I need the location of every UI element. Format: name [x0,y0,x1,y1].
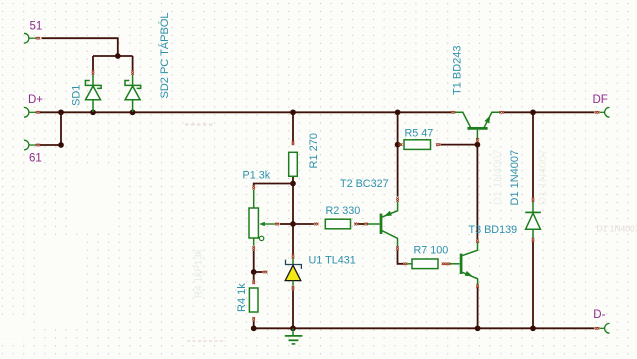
pin connection marks U1 ref [263,271,267,274]
potentiometer P1 3k [243,170,275,246]
node R1 top [290,109,296,115]
wire U1 cathode net [292,226,294,254]
wire T2 emitter column [397,114,399,143]
wire SD2 cathode drop [132,56,134,70]
wire R1 bottom to P1 node [292,176,294,224]
node T3 emitter bottom [475,325,481,331]
node P1/R4/U1-ref junction [251,269,257,275]
pin connection marks D1 cathode [532,198,535,202]
pin connection marks T1 collector side [451,111,455,114]
svg-text:T1 BD243: T1 BD243 [452,45,464,95]
transistor T1 BD243 [452,45,500,138]
svg-text:61: 61 [29,153,42,165]
wire U1 anode net [292,290,294,328]
terminal D+ [24,94,43,117]
faint artifact dashes [185,123,215,125]
faint artifact dashes bottom [187,340,226,342]
wire P1 bottom net [253,251,255,272]
terminal DF [593,94,610,117]
resistor R5 47 [404,128,433,150]
wire R7 left pin [407,263,412,265]
node wiper junction [290,221,296,227]
diode SD2 PC TAPBOL [125,13,171,113]
svg-text:U1 TL431: U1 TL431 [309,255,356,267]
pin connection marks R4 top [252,280,255,284]
svg-text:SD2 PC TÁPBÓL: SD2 PC TÁPBÓL [158,13,171,99]
svg-text:T3 BD139: T3 BD139 [469,224,518,236]
pin connection marks R5 left [398,143,402,146]
svg-text:D-: D- [593,309,605,321]
wire 61 horizontal [40,144,61,146]
svg-text:R4 1k: R4 1k [236,283,248,312]
svg-text:D1 1N4007: D1 1N4007 [509,150,521,206]
wire SD1 cathode drop [92,56,94,70]
svg-text:SD1: SD1 [71,85,83,106]
wire R2 left net [293,223,314,225]
pin connection marks T1 emitter side [500,111,504,114]
pin connection marks T1 base [476,138,479,142]
pin connection marks T3 collector [476,239,479,243]
wire R4 bottom net [253,321,255,328]
resistor R2 330 [325,205,360,229]
pin connection marks R4 bottom [252,317,255,321]
faint ghost text 1N4007 [597,224,637,234]
pin connection marks D1 anode [532,238,535,242]
wire R5 right net [441,144,478,146]
transistor T2 BC327 [340,178,399,250]
pin connection marks R7 right [442,263,446,266]
svg-text:DF: DF [593,94,608,106]
svg-text:D+: D+ [28,94,43,106]
node ground junction [290,325,296,331]
svg-text:R7 100: R7 100 [414,245,449,257]
pin connection marks T3 base [446,263,450,266]
pin connection marks P1 wiper [275,223,279,226]
wire D1 cathode drop [532,114,534,198]
wire T1 emitter to DF [504,111,595,113]
svg-text:51: 51 [30,21,43,33]
pin connection marks R7 pin [403,263,407,266]
wire net 51 to diode tops [42,38,118,56]
pin connection marks T3 emitter [476,284,479,288]
shunt regulator U1 TL431 [285,255,356,286]
resistor R7 100 [412,245,448,269]
faint ghost marks near D1 [492,149,549,205]
transistor T3 BD139 [450,224,517,284]
svg-text:D1 1N4007: D1 1N4007 [537,149,549,205]
node DF / D1 junction [530,109,536,115]
wire P1 top [254,184,293,186]
wire diode top link [93,55,133,57]
pin connection marks T2 emitter [396,198,399,202]
pin connection marks R2 right [354,223,358,226]
node R5 left / T2 emitter [395,142,401,148]
faint ghost column bottom-left [194,248,205,298]
wire R2 right net [359,223,365,225]
terminal 51 [24,21,42,44]
pin connection marks P1 bottom [252,246,255,250]
svg-text:D1 1N4007: D1 1N4007 [597,224,637,234]
svg-text:D1 1N4007: D1 1N4007 [492,149,504,205]
node D+/61 tie [58,109,64,115]
diode D1 1N4007 [509,150,541,238]
node 61 corner [58,142,64,148]
node diode-top junction [115,53,121,59]
pin connection marks R1 top [292,141,295,145]
wire wiper net [280,223,293,225]
resistor R1 270 [289,133,320,176]
node D1 anode bottom [530,325,536,331]
svg-text:P1 3k: P1 3k [243,170,271,182]
pin connection marks U1 cathode [292,254,295,258]
wire T2 emitter drop [397,147,399,197]
dotless background patches [0,167,117,338]
ground [285,328,303,344]
node SD2 anode [130,109,136,115]
pin connection marks P1 top [252,185,255,189]
resistor R4 1k [236,283,258,312]
pin connection marks T2 base [364,223,368,226]
node R4 bottom [251,325,257,331]
node R1 bottom / P1 top [290,181,296,187]
wire R1 top lead [292,114,294,141]
wire U1 ref net [254,271,263,273]
wire D+ bus [40,111,451,113]
wire T3 collector net [476,145,478,239]
wire R4 top net [253,272,255,280]
pin connection marks SD2 cathode [131,70,134,74]
terminal 61 [24,140,42,164]
node SD1 anode [90,109,96,115]
diode SD1 [71,75,102,113]
pin connection marks SD1 cathode [92,70,95,74]
svg-text:R1 270: R1 270 [308,133,320,168]
wire bottom bus D- [254,327,595,329]
node T2 emitter column top [395,109,401,115]
wire T1 base net [476,141,478,144]
wire T2 collector to R7 [398,250,404,263]
wire D1 anode drop [532,242,534,327]
svg-text:R5 47: R5 47 [405,128,434,140]
svg-text:R2 330: R2 330 [326,205,361,217]
wire 61 riser [60,112,62,145]
svg-text:R4 1kP13k: R4 1kP13k [194,248,205,298]
pin connection marks R2 left [314,223,318,226]
pin connection marks R5 right [436,143,440,146]
terminal D- [593,309,609,333]
wire T3 emitter drop [477,287,479,328]
node R5/T1-base/T3-collector [475,142,481,148]
svg-text:T2 BC327: T2 BC327 [340,178,389,190]
pin connection marks U1 anode [292,286,295,290]
